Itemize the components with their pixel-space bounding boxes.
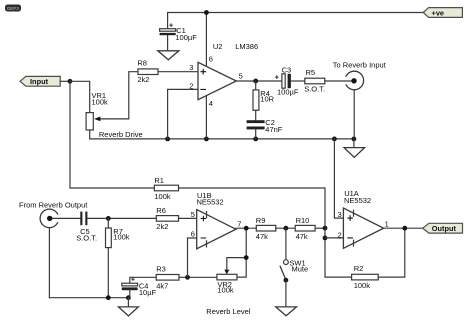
svg-text:47nF: 47nF [265,125,283,134]
resistor R4 [253,81,275,120]
junction C2 on ground line [253,137,258,142]
svg-text:3: 3 [338,210,342,219]
junction C4 bottom [126,295,131,300]
resistor R1 [154,176,178,201]
svg-text:47k: 47k [296,232,308,241]
svg-text:NE5532: NE5532 [344,196,371,205]
potentiometer VR1 [86,72,138,130]
svg-text:10µF: 10µF [139,288,157,297]
resistor R6 [156,206,196,231]
tag Input [20,76,60,86]
junction VR2 wiper node [244,255,249,260]
wire +V rail [168,13,424,29]
junction pin2 drop on ground line [165,137,170,142]
svg-text:NE5532: NE5532 [197,197,224,206]
svg-text:C3: C3 [282,65,292,74]
ground (C1) [158,51,179,60]
wire node to U1B pin6 [188,238,197,277]
capacitor C1 [160,20,198,50]
svg-text:From Reverb Output: From Reverb Output [19,201,88,210]
wire jack2 ground drop [353,90,355,139]
op-amp U2 [189,42,258,108]
wire VR1 bottom / ground line [90,130,354,139]
junction pin4 on ground line [204,137,209,142]
svg-text:Reverb Drive: Reverb Drive [99,130,143,139]
svg-text:+ve: +ve [432,8,445,17]
junction U1A pin3 drop on ground line [332,137,337,142]
ground (mid rail) [344,139,365,157]
wire R1 to U1A minus node [179,188,326,228]
svg-text:To Reverb Input: To Reverb Input [333,60,387,69]
op-amp U1A [338,189,389,248]
svg-text:Reverb Level: Reverb Level [206,307,251,316]
resistor R10 [295,216,325,241]
tag Output [423,223,463,233]
svg-text:Output: Output [432,224,457,233]
junction input node [68,79,73,84]
resistor R5 [304,68,325,93]
junction C5/R7 node [106,216,111,221]
svg-text:100µF: 100µF [175,33,197,42]
wire U2 pin6 to rail [205,13,207,68]
wire U2 pin2 to ground line [168,89,198,138]
logo badge [5,5,21,12]
connector To Reverb Input [325,60,387,89]
capacitor C2 [247,118,283,139]
svg-text:2k2: 2k2 [137,75,149,84]
svg-text:100k: 100k [113,233,130,242]
wire Input tag to node [60,80,70,82]
svg-text:47k: 47k [256,232,268,241]
wire jack1 ground drop [48,228,50,298]
svg-text:2: 2 [338,230,342,239]
junction R3/VR2/pin6 node [185,275,190,280]
ground (bottom left) [118,298,138,316]
wire input node down to R1 [70,81,154,188]
svg-text:4: 4 [209,99,213,108]
svg-text:OEP3: OEP3 [7,6,20,11]
switch SW1 [280,228,308,307]
connector From Reverb Output [19,201,88,228]
wire U1A output [384,227,423,229]
resistor R3 [156,265,217,291]
resistor R7 [106,218,130,297]
svg-text:5: 5 [239,71,243,80]
svg-text:6: 6 [209,54,213,63]
svg-text:R10: R10 [296,216,310,225]
svg-text:5: 5 [191,210,195,219]
svg-text:+: + [131,275,136,284]
potentiometer VR2 [217,228,246,294]
svg-text:7: 7 [237,220,241,229]
svg-text:LM386: LM386 [235,42,258,51]
capacitor C5 [76,212,156,243]
wire input node to VR1 top [70,81,90,112]
ground (SW1) [276,307,297,316]
svg-text:Input: Input [30,77,49,86]
svg-text:S.O.T.: S.O.T. [304,85,325,94]
svg-text:100k: 100k [354,281,371,290]
svg-text:Mute: Mute [292,264,309,273]
svg-text:100k: 100k [92,98,109,107]
svg-text:4k7: 4k7 [156,282,168,291]
junction output node [402,226,407,231]
wire U1B output [236,227,256,229]
svg-text:100µF: 100µF [277,87,299,96]
wire U1A pin3 to ground line [334,139,343,218]
svg-text:R2: R2 [354,264,364,273]
svg-text:2k2: 2k2 [156,222,168,231]
svg-text:+: + [275,72,280,81]
svg-text:R1: R1 [154,176,164,185]
resistor R9 [256,216,295,241]
junction R10 right node [323,226,328,231]
junction rail/pin6 [204,10,209,15]
junction jack ground [352,137,357,142]
wire minus node vertical [325,228,352,277]
junction R7 bottom [106,295,111,300]
svg-text:100k: 100k [154,192,171,201]
svg-text:3: 3 [189,63,193,72]
svg-text:2: 2 [189,81,193,90]
svg-text:10R: 10R [260,94,274,103]
op-amp U1B [191,191,242,249]
wire bottom rail [49,297,128,299]
junction U1B output node [244,226,249,231]
svg-text:R5: R5 [306,68,316,77]
svg-text:1: 1 [385,220,389,229]
resistor R2 [352,228,405,290]
svg-text:U2: U2 [213,42,223,51]
junction U1A pin2 node [323,236,328,241]
junction R9/R10/SW1 node [284,226,289,231]
svg-text:R6: R6 [156,206,166,215]
resistor R8 [137,58,198,84]
junction U2 output node [253,79,258,84]
wire U2 output [236,80,282,82]
svg-text:R3: R3 [156,265,166,274]
svg-text:R8: R8 [137,58,147,67]
capacitor C4 [122,275,157,298]
capacitor C3 [275,65,305,96]
svg-text:6: 6 [191,229,195,238]
svg-text:+: + [169,20,174,29]
svg-text:100k: 100k [217,286,234,295]
svg-text:S.O.T.: S.O.T. [76,234,97,243]
svg-text:R9: R9 [256,216,266,225]
wire to U1A pin2 [325,237,343,239]
wire U2 pin4 [205,96,207,139]
tag +ve [423,8,462,18]
